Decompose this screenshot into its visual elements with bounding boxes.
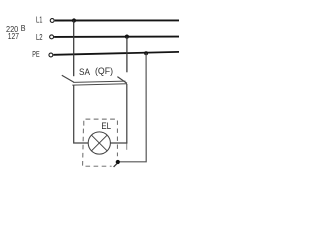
svg-text:L2: L2 bbox=[36, 33, 43, 42]
ground tail dash at luminaire bbox=[114, 163, 118, 167]
wire L1 line bbox=[55, 19, 179, 21]
svg-text:PE: PE bbox=[32, 50, 39, 59]
junction dot on L2 bbox=[125, 35, 129, 39]
wire switch box left side down to lamp bbox=[74, 85, 89, 143]
node voltage label 220/127 V bbox=[6, 23, 26, 41]
svg-text:L1: L1 bbox=[36, 16, 43, 25]
svg-text:127: 127 bbox=[8, 31, 19, 41]
wire drop from L2 to switch bbox=[126, 37, 128, 73]
switch pole 2 blade bbox=[117, 77, 127, 84]
svg-text:В: В bbox=[21, 23, 26, 33]
svg-text:(QF): (QF) bbox=[95, 66, 113, 76]
wire drop from L1 to switch bbox=[73, 21, 75, 77]
wire switch box right side down (neutral) bbox=[126, 84, 128, 144]
terminal L2 bbox=[50, 35, 54, 39]
junction dot PE to luminaire body bbox=[116, 160, 120, 164]
junction dot on L1 bbox=[72, 18, 76, 22]
svg-text:EL: EL bbox=[101, 121, 111, 132]
switch pole 1 blade bbox=[62, 75, 74, 82]
junction dot on PE bbox=[144, 51, 148, 55]
terminal L1 bbox=[50, 19, 54, 23]
lamp EL cross bbox=[92, 135, 108, 151]
wire lamp right terminal to neutral bbox=[110, 142, 127, 144]
terminal PE bbox=[49, 53, 53, 57]
lamp EL circle bbox=[88, 132, 110, 154]
wire PE drop down and to luminaire bbox=[118, 53, 146, 162]
wire PE line bbox=[53, 52, 179, 55]
switch bar top line bbox=[73, 81, 125, 82]
wire neutral fading stub below lamp wire bbox=[126, 144, 128, 150]
luminaire EL dashed enclosure bbox=[83, 119, 118, 166]
switch bar bottom line bbox=[72, 84, 127, 85]
wire L2 line bbox=[54, 36, 179, 38]
svg-text:SA: SA bbox=[79, 67, 90, 77]
